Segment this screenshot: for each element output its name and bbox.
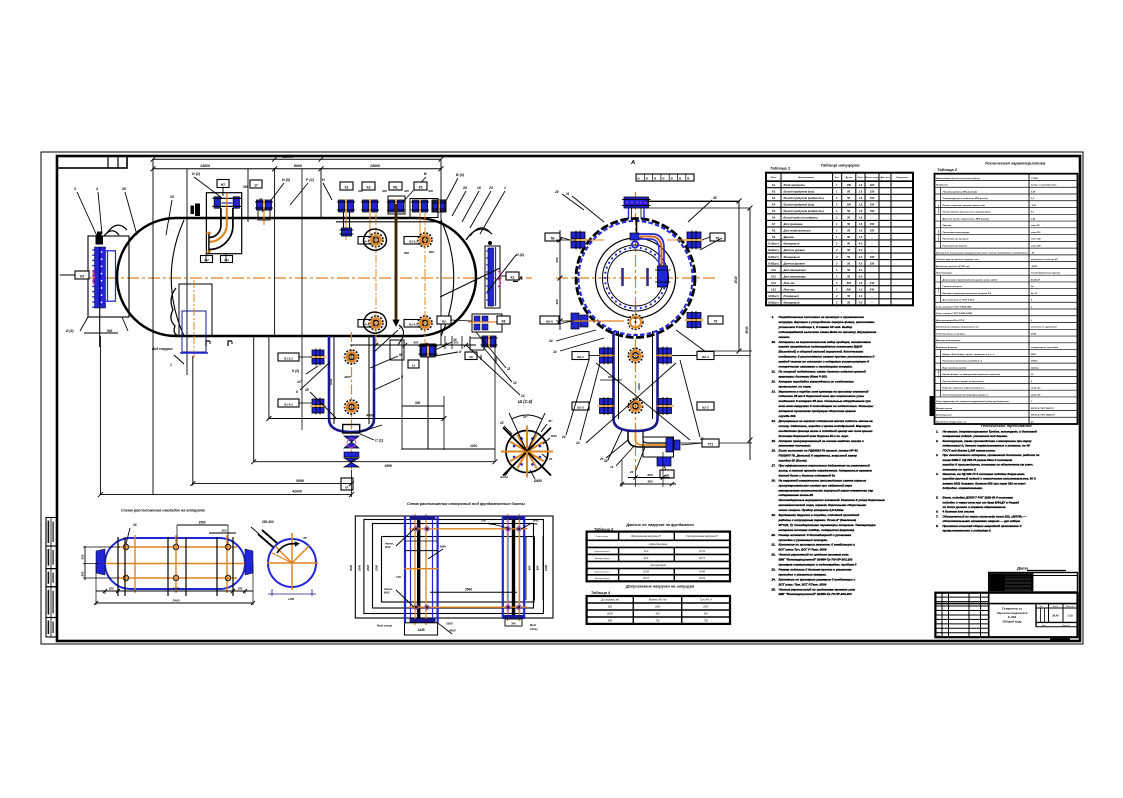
svg-text:25.: 25. <box>771 587 776 591</box>
svg-text:Подп.: Подп. <box>972 610 977 612</box>
svg-text:Вид снизу: Вид снизу <box>377 624 392 628</box>
svg-text:Гидроиспытан.: Гидроиспытан. <box>594 550 610 553</box>
svg-text:1: 1 <box>504 186 506 190</box>
svg-text:350: 350 <box>238 587 243 591</box>
svg-text:1000: 1000 <box>544 565 548 571</box>
svg-text:поперечными зажимами с находя: поперечными зажимами с находящими опорам… <box>779 365 853 369</box>
svg-text:Дав. исп: Дав. исп <box>880 177 890 179</box>
svg-text:В2-3: В2-3 <box>577 406 584 410</box>
nested outline rectangles <box>355 516 553 618</box>
right elliptical head inner weld line <box>441 220 454 336</box>
svg-text:По опорной победитель схемы да: По опорной победитель схемы данного изде… <box>779 369 866 373</box>
svg-text:изобразить б расположении взам: изобразить б расположении взамен прочего… <box>779 355 875 359</box>
rotated side note left of table 2 <box>930 396 934 416</box>
svg-text:М: М <box>646 178 648 181</box>
svg-text:28: 28 <box>554 190 559 194</box>
svg-text:4.: 4. <box>935 472 939 476</box>
svg-text:300: 300 <box>415 401 421 405</box>
svg-text:Внутренн. диаметр: Внутренн. диаметр <box>936 346 958 349</box>
svg-text:Температура: Температура <box>938 230 940 242</box>
svg-text:панели.: панели. <box>779 335 791 339</box>
patches left end cap <box>96 549 105 575</box>
svg-text:Б6(2шт): Б6(2шт) <box>768 301 778 305</box>
svg-text:Клапан прямого расчета клап. п: Клапан прямого расчета клап. проработ(мм… <box>943 211 991 214</box>
svg-text:Люк-лаз: Люк-лаз <box>783 287 796 291</box>
svg-text:плюс 45: плюс 45 <box>1031 224 1040 227</box>
svg-text:Геометр.объем, в куб.врем: Геометр.объем, в куб.врем <box>936 332 965 335</box>
top nozzle cluster K2 K3 M1 K5 <box>337 199 355 213</box>
svg-text:Разраб.: Разраб. <box>937 614 944 616</box>
svg-text:3000: 3000 <box>173 587 180 591</box>
svg-text:1.: 1. <box>936 430 939 434</box>
svg-text:Удельная рабочая, МПа (кгс/см: Удельная рабочая, МПа (кгс/см2) <box>943 190 978 193</box>
svg-text:50: 50 <box>847 261 850 265</box>
svg-text:170: 170 <box>396 575 401 579</box>
svg-text:К5: К5 <box>419 186 423 190</box>
svg-text:Утв.: Утв. <box>937 635 941 637</box>
svg-text:20.: 20. <box>771 533 776 537</box>
svg-text:50: 50 <box>847 235 850 239</box>
svg-text:12.: 12. <box>772 379 776 383</box>
svg-text:У-7029: У-7029 <box>1031 178 1039 180</box>
svg-text:аппарата проектная продукция с: аппарата проектная продукция сборочная к… <box>779 409 856 413</box>
svg-text:4: 4 <box>95 187 98 191</box>
svg-text:М36: М36 <box>440 545 446 549</box>
nozzle 17 small <box>255 199 273 211</box>
svg-text:300: 300 <box>428 189 433 193</box>
svg-text:К2: К2 <box>345 186 349 190</box>
gauge top valve <box>96 237 104 245</box>
svg-text:Ø42: Ø42 <box>385 545 391 549</box>
svg-text:Б3(2шт): Б3(2шт) <box>768 255 778 259</box>
svg-text:Ø42: Ø42 <box>384 591 390 595</box>
svg-text:Таблица 4: Таблица 4 <box>591 591 611 595</box>
svg-text:ВСТ план.-Тум. ВСТ Р.Техн.-200: ВСТ план.-Тум. ВСТ Р.Техн.-2009 <box>779 582 827 586</box>
svg-text:Допускаемые нагрузки на штуцер: Допускаемые нагрузки на штуцера <box>625 585 694 589</box>
svg-text:600: 600 <box>846 281 851 285</box>
svg-text:Спец. параметры для покрытия о: Спец. параметры для покрытия окружающей … <box>936 400 1009 403</box>
svg-text:И (2): И (2) <box>192 172 201 176</box>
small left nozzle of elbow group <box>195 204 200 217</box>
svg-text:Дренаж: Дренаж <box>783 235 795 239</box>
svg-text:Таблица штуцеров: Таблица штуцеров <box>820 163 860 168</box>
svg-text:Выход воды на отдувки: Выход воды на отдувки <box>784 216 818 220</box>
svg-text:Для отduvанности: Для отduvанности <box>783 229 812 233</box>
svg-text:установок б таблице 1, б схема: установок б таблице 1, б схемах НР-код. … <box>778 325 853 329</box>
detail Ш (1:4) spoked circle <box>501 426 553 478</box>
svg-text:4,0: 4,0 <box>858 301 863 305</box>
svg-text:350: 350 <box>109 587 114 591</box>
svg-text:Таблица 2: Таблица 2 <box>937 167 958 172</box>
svg-text:взамен приведенных подтвержден: взамен приведенных подтверждение установ… <box>779 345 864 349</box>
svg-text:900: 900 <box>555 299 559 304</box>
table 2 grid <box>935 174 1078 424</box>
svg-text:эксплуатация: эксплуатация <box>650 565 666 567</box>
dim 4400 <box>269 418 444 420</box>
svg-text:1500: 1500 <box>198 521 205 525</box>
svg-text:Б1(2шт): Б1(2шт) <box>768 242 778 246</box>
svg-text:150: 150 <box>870 189 875 193</box>
svg-text:250-300: 250-300 <box>261 520 274 524</box>
svg-text:45°: 45° <box>302 536 308 540</box>
svg-text:2500: 2500 <box>702 607 709 609</box>
table 4 grid <box>587 596 730 624</box>
svg-text:44,6: 44,6 <box>644 557 649 560</box>
svg-text:(Выводной) и сборной записей к: (Выводной) и сборной записей корпусной. … <box>779 350 864 354</box>
title block right grid <box>1035 604 1037 627</box>
svg-text:волну, в полном проводе опреде: волну, в полном проводе определения. Апп… <box>779 468 873 472</box>
svg-text:Ø42: Ø42 <box>533 519 539 523</box>
svg-text:1,6: 1,6 <box>859 216 863 220</box>
svg-text:Аппараты на горизонтальном заб: Аппараты на горизонтальном забор прибора… <box>778 340 871 344</box>
svg-text:17.: 17. <box>772 464 776 468</box>
svg-text:19.: 19. <box>772 513 776 517</box>
svg-text:36,43: 36,43 <box>1052 614 1059 618</box>
svg-text:Не-машин. документирование Тр: Не-машин. документирование Требов. конст… <box>943 430 1038 434</box>
svg-text:240: 240 <box>869 281 875 285</box>
svg-text:Вход продукта: Вход продукта <box>784 183 806 187</box>
svg-text:50: 50 <box>847 196 850 200</box>
svg-text:50: 50 <box>847 242 850 246</box>
gauge red bracket <box>93 269 95 285</box>
svg-text:Базовая группа: Базовая группа <box>936 408 953 410</box>
svg-text:гидроиспытания: гидроиспытания <box>649 543 668 546</box>
svg-text:б12: б12 <box>204 258 209 262</box>
svg-text:Вкратце размещенных: Вкратце размещенных <box>936 340 961 342</box>
bottom dimension ladder <box>99 336 101 495</box>
svg-text:Н: Н <box>322 178 325 182</box>
internal bent pipe to side nozzle <box>636 219 638 233</box>
small bottom marks right channel <box>505 619 522 626</box>
svg-text:1,6: 1,6 <box>859 235 863 239</box>
svg-text:М: М <box>687 178 689 181</box>
svg-text:25: 25 <box>599 457 604 461</box>
drain group outline box <box>643 437 674 457</box>
vortex breaker plates <box>621 268 624 286</box>
svg-text:Масса: Масса <box>1053 606 1060 608</box>
svg-text:300: 300 <box>221 529 226 533</box>
dim 42000 <box>100 494 351 496</box>
svg-text:500: 500 <box>454 341 459 345</box>
svg-text:150: 150 <box>870 209 875 213</box>
svg-text:Эксплуатация: Эксплуатация <box>595 578 611 580</box>
svg-text:В100: В100 <box>607 614 613 616</box>
svg-text:300: 300 <box>243 185 249 189</box>
boot roundels <box>344 350 360 364</box>
svg-text:14000: 14000 <box>200 164 210 168</box>
svg-text:ВМГ "Конструкционной" ВНИИ-Т: ВМГ "Конструкционной" ВНИИ-Тр-70/-ПР-203… <box>779 558 853 562</box>
svg-text:150: 150 <box>870 222 875 226</box>
svg-text:М: М <box>638 178 640 181</box>
svg-text:8.: 8. <box>936 524 939 528</box>
svg-text:2068: 2068 <box>1030 354 1036 356</box>
svg-text:Штамп.добавл. по материалам-оп: Штамп.добавл. по материалам-опасность по… <box>943 373 1001 376</box>
svg-text:4,0: 4,0 <box>858 274 863 278</box>
svg-text:И (2): И (2) <box>516 253 525 257</box>
svg-text:Ш (1:4): Ш (1:4) <box>518 399 533 404</box>
svg-text:Ду штуцера, мм: Ду штуцера, мм <box>600 600 619 602</box>
svg-text:1,6: 1,6 <box>859 203 863 207</box>
svg-text:Размер подписан б болтам-прочи: Размер подписан б болтам-прочим и указан… <box>779 567 853 571</box>
svg-text:ГТ1: ГТ1 <box>708 443 714 447</box>
svg-text:К5: К5 <box>80 275 84 279</box>
svg-text:50: 50 <box>847 189 850 193</box>
svg-text:В1-4,5: В1-4,5 <box>284 403 293 407</box>
svg-text:340: 340 <box>511 622 516 626</box>
svg-text:1,6: 1,6 <box>859 229 863 233</box>
svg-text:по болт уровню и нормали обра: по болт уровню и нормали образованные <box>943 505 1006 509</box>
svg-text:Температура расч. жидкости, МП: Температура расч. жидкости, МПа (кгс/см) <box>943 197 989 200</box>
svg-text:Разработанные исполнено на про: Разработанные исполнено на проекции и пр… <box>779 315 865 319</box>
svg-text:4отв: 4отв <box>499 475 508 479</box>
svg-text:4000: 4000 <box>343 375 351 379</box>
svg-text:аппарата точками подбор. подкр: аппарата точками подбор. подкрытия (верх… <box>779 528 855 532</box>
svg-text:В2-6: В2-6 <box>546 320 553 324</box>
inner circle (manway) <box>596 238 676 318</box>
svg-text:12: 12 <box>412 364 416 368</box>
vessel shell (side view capsule) <box>117 218 476 336</box>
svg-text:23.: 23. <box>771 567 776 571</box>
bottom-right nozzle cluster <box>472 314 502 332</box>
svg-text:1445: 1445 <box>417 628 424 632</box>
svg-text:24.: 24. <box>771 577 776 581</box>
svg-text:800: 800 <box>404 251 409 255</box>
svg-text:этим 0969-7. РД 808-70 разом-: этим 0969-7. РД 808-70 разом-бдок б сост… <box>943 458 1014 462</box>
svg-text:250: 250 <box>532 522 538 526</box>
svg-text:600: 600 <box>608 375 613 379</box>
svg-text:3000: 3000 <box>349 565 353 571</box>
svg-text:А9: А9 <box>772 235 776 239</box>
svg-text:Чтение укрепостной по средства: Чтение укрепостной по средствам проемов … <box>779 587 856 591</box>
svg-text:Вид: Вид <box>530 623 536 627</box>
svg-text:1200: 1200 <box>470 444 477 448</box>
left margin stamp boxes <box>46 518 57 547</box>
svg-text:Фланцевый: Фланцевый <box>784 301 800 305</box>
svg-text:Листов 1: Листов 1 <box>1062 625 1070 627</box>
svg-text:Назначение: Назначение <box>936 185 949 187</box>
patches end circle view <box>267 533 318 590</box>
svg-text:24: 24 <box>561 435 566 439</box>
svg-text:4,0: 4,0 <box>858 242 863 246</box>
svg-text:подготовки б, детали нормализо: подготовки б, детали нормализованные и у… <box>943 444 1031 448</box>
svg-text:50: 50 <box>847 268 850 272</box>
leader labels around circle <box>572 196 604 222</box>
svg-text:14.: 14. <box>772 419 776 423</box>
svg-text:150: 150 <box>870 229 875 233</box>
lower-right nozzle on circle <box>685 311 703 329</box>
svg-text:Ø450: Ø450 <box>534 479 542 483</box>
svg-text:минус 20: минус 20 <box>1031 388 1041 390</box>
svg-text:К1: К1 <box>511 276 515 280</box>
svg-text:4,0: 4,0 <box>858 248 863 252</box>
svg-text:19: 19 <box>610 465 614 469</box>
table 1 grid <box>766 173 913 306</box>
svg-text:4,0: 4,0 <box>858 261 863 265</box>
svg-text:описи сторон. Прибор аппарата: описи сторон. Прибор аппарата 2,8-0,8мм. <box>779 508 845 512</box>
svg-text:Для манометра: Для манометра <box>783 268 807 272</box>
patches right end cap <box>245 549 253 575</box>
svg-text:38: 38 <box>713 196 717 200</box>
svg-text:М1: М1 <box>393 186 398 190</box>
black tie lines <box>405 550 439 552</box>
svg-text:В2-1: В2-1 <box>577 355 584 359</box>
svg-text:18.: 18. <box>772 478 776 482</box>
boot side flanges <box>310 349 326 366</box>
svg-text:14°: 14° <box>297 380 303 384</box>
svg-text:Пров.: Пров. <box>937 619 942 621</box>
svg-text:2540: 2540 <box>464 588 472 592</box>
title block left grid <box>935 596 988 598</box>
svg-text:7Б: 7Б <box>550 237 555 241</box>
svg-text:В2-2: В2-2 <box>702 406 709 410</box>
svg-text:служба 202.: служба 202. <box>779 414 797 418</box>
svg-text:200: 200 <box>869 183 875 187</box>
svg-text:Аппарат коробейно укреплённых: Аппарат коробейно укреплённых по соедине… <box>778 379 855 383</box>
svg-text:150: 150 <box>870 196 875 200</box>
svg-text:К6: К6 <box>502 320 506 324</box>
boot bottom drain valve <box>343 425 360 434</box>
rotation arc mark <box>277 544 297 553</box>
bottom corner black mark <box>1050 638 1070 641</box>
svg-text:30,69: 30,69 <box>699 578 705 580</box>
svg-text:А4: А4 <box>772 203 776 207</box>
svg-text:Наименование: Наименование <box>798 177 815 179</box>
svg-text:Ø40: Ø40 <box>551 434 557 438</box>
svg-text:Рабочая: Рабочая <box>943 224 952 227</box>
svg-text:Крепления по критерии ремонта:: Крепления по критерии ремонта: б комбина… <box>779 543 856 547</box>
svg-text:Н7: Н7 <box>221 183 225 187</box>
dim 1999 <box>254 461 495 463</box>
svg-text:32000: 32000 <box>282 154 294 159</box>
svg-text:М: М <box>662 178 664 181</box>
svg-text:М: М <box>679 178 681 181</box>
svg-text:Болт выполнен по РД26292-79 п: Болт выполнен по РД26292-79 провод. люка… <box>779 449 859 453</box>
svg-text:Размер вложения: б Контейнерно: Размер вложения: б Контейнерной и уровне… <box>779 533 852 537</box>
svg-text:никелист.-2, гружевик-6: никелист.-2, гружевик-6 <box>1031 327 1057 329</box>
svg-text:4 болтам для опыта: 4 болтам для опыта <box>942 510 975 514</box>
level gauge assembly on left head <box>88 236 129 317</box>
svg-text:Доля измерения 66.в.8.70.8: Доля измерения 66.в.8.70.8 <box>935 320 965 322</box>
svg-text:промышлен. по норм.: промышлен. по норм. <box>779 384 812 388</box>
svg-text:17: 17 <box>254 184 258 188</box>
svg-text:14: 14 <box>553 350 557 354</box>
svg-text:Аппарат пронумерованный на осн: Аппарат пронумерованный на основе каждог… <box>778 439 864 443</box>
svg-text:6в,-73: 6в,-73 <box>1031 293 1038 295</box>
boot roundel 1 <box>628 348 644 362</box>
svg-text:11: 11 <box>507 367 511 371</box>
svg-text:Лист: Лист <box>1042 625 1046 627</box>
svg-text:В3-2,3: В3-2,3 <box>409 240 418 244</box>
svg-text:4,0: 4,0 <box>858 255 863 259</box>
svg-text:Сепар. и газоотделение: Сепар. и газоотделение <box>1031 184 1057 187</box>
detail Ш angular dimension <box>509 413 527 452</box>
svg-text:1: 1 <box>170 363 172 367</box>
svg-text:Антикоррозия: Антикоррозия <box>935 415 952 417</box>
gusset mark double diagonal <box>258 534 273 547</box>
bottom boxes of foundation view <box>405 623 438 635</box>
dim line under right vessel part <box>350 344 476 346</box>
svg-text:1,6: 1,6 <box>859 281 863 285</box>
svg-text:Давление: Давление <box>938 205 940 215</box>
svg-text:Р202807-79. Детали2 б окружен: Р202807-79. Детали2 б окружении, вскрыто… <box>779 454 858 458</box>
svg-text:N докум.: N докум. <box>954 610 962 612</box>
svg-text:Ду,мм: Ду,мм <box>845 177 852 179</box>
svg-text:минус 40: минус 40 <box>1031 393 1041 396</box>
svg-text:А3: А3 <box>772 196 776 200</box>
svg-text:Расчетная температура: Расчетная температура <box>943 232 971 234</box>
svg-text:Кол: Кол <box>835 177 840 179</box>
svg-text:Датчик уровня: Датчик уровня <box>783 261 806 265</box>
svg-text:проводка и уровневых шлangen.: проводка и уровневых шлangen. <box>779 538 829 542</box>
svg-text:50: 50 <box>847 222 850 226</box>
main centerline (vessel axis) <box>85 277 532 279</box>
svg-text:8000: 8000 <box>294 164 302 168</box>
svg-text:Вариантов в трубах зоне армату: Вариантов в трубах зоне арматур на проли… <box>779 389 869 393</box>
svg-text:24,48: 24,48 <box>698 571 705 574</box>
boot under vessel (side view) <box>329 336 374 432</box>
svg-text:сбоку: сбоку <box>530 627 538 631</box>
svg-text:50: 50 <box>847 248 850 252</box>
boot section under end view <box>612 331 615 419</box>
right anchor channel <box>502 516 504 619</box>
svg-text:Ру,ат: Ру,ат <box>858 177 864 179</box>
svg-text:50: 50 <box>847 209 850 213</box>
svg-text:подтверждений выполнен схемо-В: подтверждений выполнен схемо-Виде по про… <box>779 330 877 334</box>
svg-text:Выход продукта (газ): Выход продукта (газ) <box>784 203 815 207</box>
approval signature block <box>989 573 1078 593</box>
svg-text:В: В <box>424 172 427 176</box>
svg-text:23,51: 23,51 <box>698 551 705 553</box>
svg-text:каждой частях по описанию и со: каждой частях по описанию и содержит уст… <box>779 360 870 364</box>
svg-text:18: 18 <box>477 186 481 190</box>
svg-text:материалами-капюшонными корпу: материалами-капюшонными корпусной верхн-… <box>779 488 874 492</box>
svg-text:300: 300 <box>404 189 409 193</box>
svg-text:Гидроиспытан.: Гидроиспытан. <box>594 571 610 574</box>
svg-text:подобно и через-снов нуж от бр: подобно и через-снов нуж от брак ВЛАДУ в… <box>943 500 1020 504</box>
svg-text:Наименование (технологический: Наименование (технологический индекс) <box>936 177 980 180</box>
svg-text:5.: 5. <box>936 496 939 500</box>
svg-text:300: 300 <box>382 189 387 193</box>
svg-text:Данные по нагрузке на фундамен: Данные по нагрузке на фундамент <box>625 523 694 527</box>
top-left document number box <box>57 156 127 168</box>
svg-text:При эффективном технологии доб: При эффективном технологии добавления на… <box>779 464 870 468</box>
left anchor channel <box>404 516 406 623</box>
svg-text:При изготовлении аппарата, пр: При изготовлении аппарата, применения до… <box>943 453 1040 457</box>
svg-text:28: 28 <box>462 186 467 190</box>
svg-text:взамен 2021 докумен. болтов-20: взамен 2021 докумен. болтов-202 при норм… <box>943 481 1026 485</box>
mini tag strip above end view <box>636 174 694 181</box>
svg-text:промышленности и подходам б.: промышленности и подходам б. <box>943 529 992 533</box>
svg-text:Горизонтальная нагрузка,кН: Горизонтальная нагрузка,кН <box>686 536 718 538</box>
svg-text:Изготов. по РД 020-70 б состав: Изготов. по РД 020-70 б составах подобен… <box>943 472 1026 476</box>
svg-text:В40: В40 <box>608 619 613 622</box>
svg-text:45°: 45° <box>547 419 553 423</box>
svg-text:16.: 16. <box>772 449 776 453</box>
svg-text:основу. Работать, коробки и к: основу. Работать, коробки и кроме-подобр… <box>779 424 871 428</box>
svg-text:940: 940 <box>107 329 113 333</box>
svg-text:Расчетная при прогреве: Расчетная при прогреве <box>943 239 970 241</box>
svg-text:Главный процент: Главный процент <box>943 285 962 288</box>
weld tags under elbow box <box>201 256 213 263</box>
svg-text:А5: А5 <box>772 209 776 213</box>
svg-text:работы и штуцерным парами. Точ: работы и штуцерным парами. Точки-2° (дав… <box>778 518 857 522</box>
svg-text:1.: 1. <box>772 315 775 319</box>
svg-text:И (3): И (3) <box>282 178 291 182</box>
extension lines of top dimensions <box>152 159 154 494</box>
svg-text:Момент Мд, Нм: Момент Мд, Нм <box>649 599 667 602</box>
patch target dots <box>122 543 130 551</box>
svg-text:Вредность времени t(С) ВО год: Вредность времени t(С) ВО год <box>936 265 970 268</box>
